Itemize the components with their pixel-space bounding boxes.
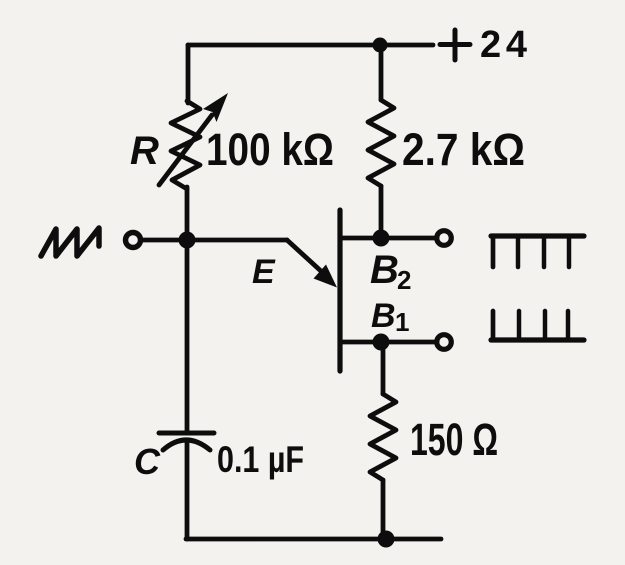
svg-text:2: 2: [397, 265, 411, 295]
svg-text:1: 1: [395, 307, 409, 337]
svg-text:E: E: [252, 253, 276, 291]
svg-text:2.7 kΩ: 2.7 kΩ: [402, 124, 525, 175]
svg-text:100 kΩ: 100 kΩ: [206, 124, 334, 175]
svg-text:0.1 µF: 0.1 µF: [217, 439, 304, 480]
svg-text:B: B: [370, 248, 399, 292]
svg-text:150 Ω: 150 Ω: [410, 414, 498, 465]
svg-text:B: B: [371, 297, 396, 335]
svg-text:C: C: [134, 441, 161, 482]
svg-text:R: R: [130, 129, 159, 173]
